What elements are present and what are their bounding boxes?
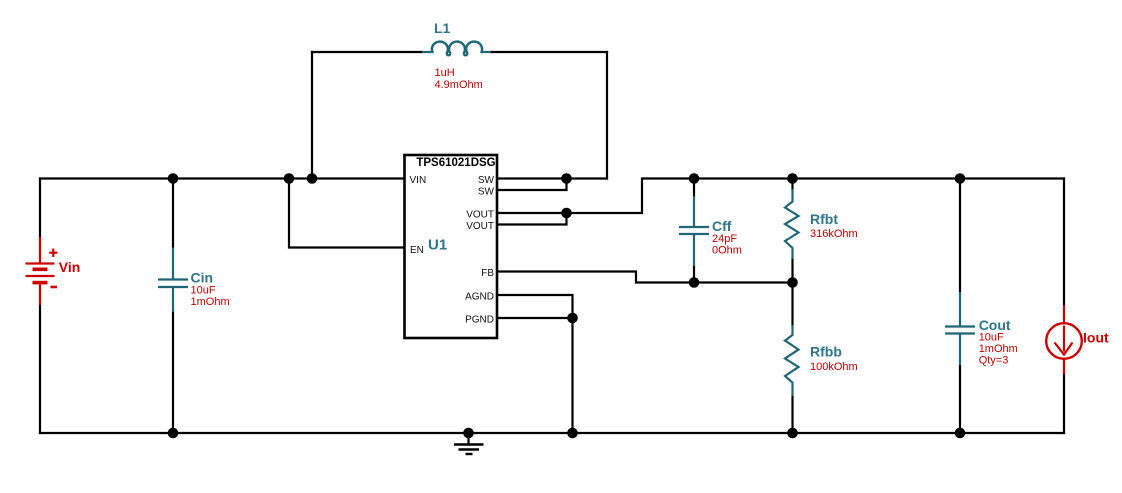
svg-text:0Ohm: 0Ohm <box>712 245 742 257</box>
svg-text:10uF: 10uF <box>191 285 216 297</box>
svg-text:FB: FB <box>481 268 494 279</box>
svg-text:Cff: Cff <box>712 218 732 234</box>
svg-text:4.9mOhm: 4.9mOhm <box>435 79 483 91</box>
svg-text:PGND: PGND <box>465 315 494 326</box>
svg-text:VIN: VIN <box>410 175 427 186</box>
svg-text:U1: U1 <box>428 237 447 254</box>
svg-text:EN: EN <box>410 245 424 256</box>
svg-text:Rfbb: Rfbb <box>810 344 842 360</box>
svg-text:1uH: 1uH <box>435 67 455 79</box>
svg-text:AGND: AGND <box>465 292 494 303</box>
svg-text:316kOhm: 316kOhm <box>810 228 858 240</box>
svg-text:Rfbt: Rfbt <box>810 211 838 227</box>
svg-text:24pF: 24pF <box>712 233 737 245</box>
svg-text:TPS61021DSG: TPS61021DSG <box>416 157 495 169</box>
svg-text:10uF: 10uF <box>979 332 1004 344</box>
svg-text:Vin: Vin <box>59 259 81 275</box>
svg-text:100kOhm: 100kOhm <box>810 361 858 373</box>
svg-text:VOUT: VOUT <box>466 210 494 221</box>
svg-text:Cin: Cin <box>191 270 214 286</box>
svg-text:1mOhm: 1mOhm <box>979 343 1018 355</box>
svg-text:L1: L1 <box>434 20 451 36</box>
svg-text:Iout: Iout <box>1083 329 1109 345</box>
svg-text:SW: SW <box>478 187 495 198</box>
svg-text:VOUT: VOUT <box>466 221 494 232</box>
svg-text:SW: SW <box>478 175 495 186</box>
svg-text:1mOhm: 1mOhm <box>191 296 230 308</box>
svg-text:Qty=3: Qty=3 <box>979 355 1009 367</box>
